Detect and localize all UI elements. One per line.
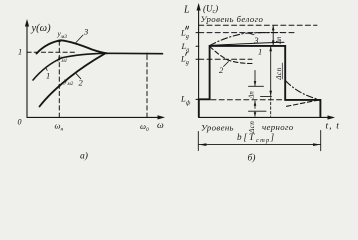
node dot y_m1	[58, 57, 60, 59]
svg-text:1: 1	[258, 46, 262, 56]
dashed vertical marker	[270, 98, 272, 117]
svg-text:черного: черного	[262, 122, 294, 132]
dim arrow dp top	[272, 26, 274, 46]
curve 1 thin top	[210, 42, 284, 45]
trailing dash-dot	[286, 81, 318, 99]
svg-text:ω: ω	[157, 121, 164, 131]
svg-text:0: 0	[18, 118, 22, 127]
axis tick L'g	[196, 58, 199, 60]
ref tick bottom of dsp	[261, 95, 272, 97]
L'g level dashed	[199, 58, 252, 60]
axis tick Lg	[196, 45, 199, 47]
node dot at w0 junction	[146, 53, 148, 55]
curve 1	[33, 53, 106, 80]
b dimension left tick	[197, 132, 199, 151]
svg-text:а): а)	[80, 151, 88, 162]
b dimension line	[199, 144, 321, 146]
merged line	[103, 52, 163, 54]
dashed level y=1	[27, 51, 77, 53]
svg-text:Δп: Δп	[276, 36, 283, 45]
svg-text:L: L	[183, 5, 190, 16]
svg-text:3: 3	[83, 27, 88, 37]
curve 2 dashed sag	[210, 47, 252, 64]
arrow down to ref A	[254, 71, 256, 86]
axis tick L_f	[196, 98, 199, 100]
leader for 3	[76, 35, 84, 43]
ref line A	[249, 85, 264, 87]
dim arrow dsp right	[270, 46, 272, 95]
svg-text:Δп: Δп	[248, 91, 255, 100]
main pulse waveform	[199, 46, 321, 117]
leader for 1	[46, 68, 47, 71]
white level dashed	[199, 24, 317, 26]
svg-text:y(ω): y(ω)	[31, 23, 52, 34]
svg-text:Уровень: Уровень	[201, 123, 234, 133]
arrow down to baseline	[254, 111, 256, 116]
axis tick L''g	[196, 32, 199, 34]
svg-text:Δсп: Δсп	[275, 67, 283, 81]
leader for 3	[248, 33, 254, 35]
leader for 2	[224, 62, 229, 67]
ref line B	[249, 110, 267, 112]
x axis	[27, 116, 163, 118]
svg-text:б): б)	[248, 153, 256, 164]
svg-text:3: 3	[253, 35, 258, 45]
svg-text:Уровень белого: Уровень белого	[201, 14, 264, 24]
L_f level dashed	[211, 99, 285, 101]
svg-text:1: 1	[46, 71, 50, 81]
curve 2	[40, 54, 105, 107]
arrow up to L_f line	[254, 101, 256, 108]
node dot y_m2	[58, 84, 60, 86]
dashed vertical at w_0	[146, 54, 148, 117]
svg-text:t, t: t, t	[326, 122, 340, 132]
L''g level dashed	[199, 32, 296, 34]
curve 3	[37, 40, 108, 53]
trailing dashed	[287, 100, 319, 106]
y axis	[26, 21, 28, 117]
svg-text:1: 1	[18, 47, 22, 57]
b dim left arrowhead	[199, 143, 207, 146]
leader for 2	[76, 74, 81, 79]
dashed vertical at w_n	[58, 42, 60, 117]
b dimension right tick	[320, 131, 322, 151]
b dim right arrowhead	[313, 143, 321, 146]
node dot y_m3	[58, 40, 61, 43]
curve 3 dash-dot top	[210, 33, 284, 46]
t axis	[199, 116, 333, 118]
L axis	[198, 5, 200, 117]
